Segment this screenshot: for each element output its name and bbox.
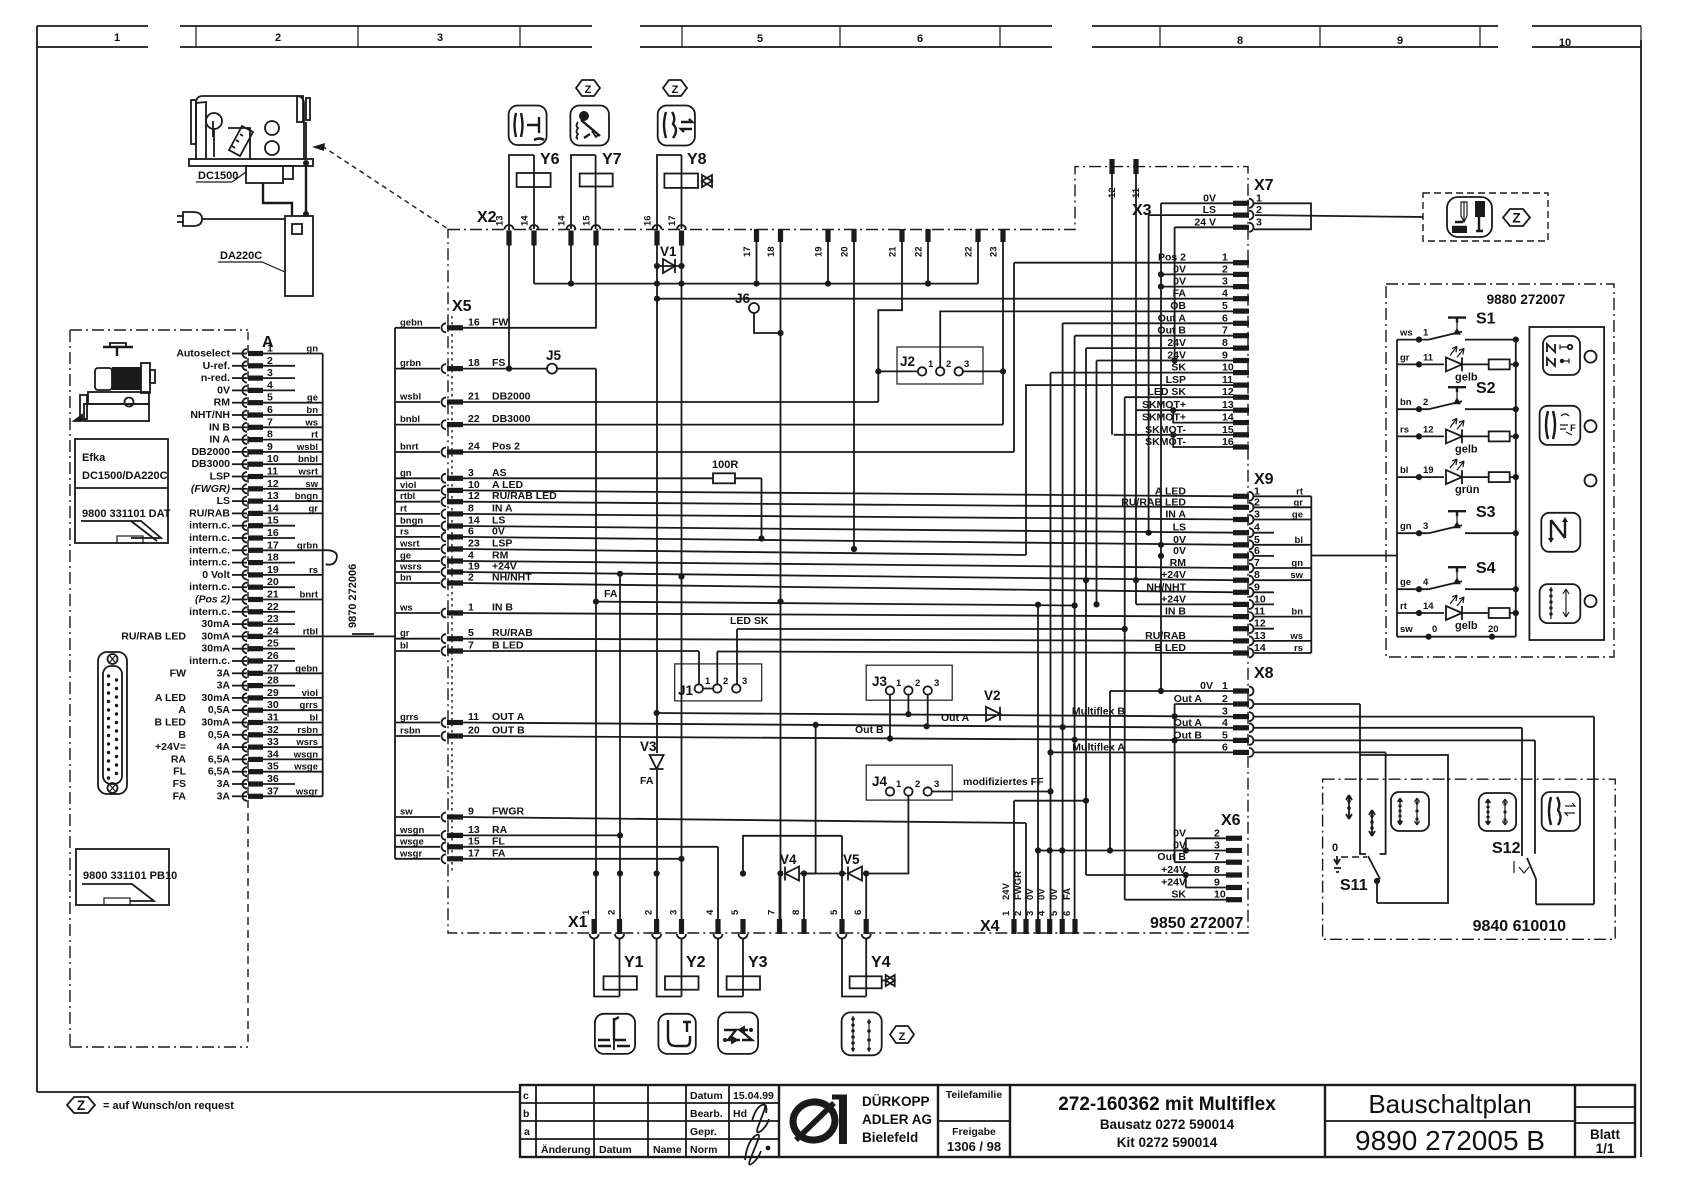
svg-text:11: 11 bbox=[468, 711, 479, 723]
svg-text:22: 22 bbox=[914, 246, 925, 257]
wire X8 pin3 Multiflex B bbox=[1254, 717, 1594, 905]
svg-text:2: 2 bbox=[644, 910, 655, 915]
svg-text:36: 36 bbox=[267, 773, 279, 785]
icon Y8 thread trim bbox=[658, 106, 695, 146]
svg-text:FS: FS bbox=[492, 357, 505, 369]
svg-text:gelb: gelb bbox=[1455, 371, 1478, 383]
wire X6 pin7 Out B bbox=[1175, 861, 1226, 863]
wire X3 pin8 24V bbox=[1086, 348, 1233, 875]
svg-text:1/1: 1/1 bbox=[1596, 1141, 1615, 1156]
svg-text:gn: gn bbox=[306, 344, 318, 355]
wire RA row bbox=[463, 834, 620, 836]
wire FW row bbox=[463, 327, 596, 329]
svg-text:a: a bbox=[524, 1126, 530, 1138]
svg-text:gr: gr bbox=[1400, 352, 1410, 363]
svg-text:grbn: grbn bbox=[400, 358, 421, 369]
svg-text:FWGR: FWGR bbox=[492, 806, 524, 818]
svg-text:intern.c.: intern.c. bbox=[189, 606, 230, 618]
svg-text:27: 27 bbox=[267, 662, 279, 674]
icon Y6 presser foot lift bbox=[509, 106, 547, 146]
svg-text:FW: FW bbox=[492, 316, 508, 328]
svg-text:RM: RM bbox=[1170, 557, 1187, 569]
wire V4 V5 bridge bbox=[743, 836, 842, 874]
svg-text:0: 0 bbox=[1432, 624, 1437, 635]
wire X3 pin13 SKMOT+ bbox=[1136, 409, 1233, 411]
svg-text:5: 5 bbox=[730, 909, 741, 915]
X5 pin 24 Pos 2 bbox=[395, 451, 440, 453]
connector A pin 8 IN A bbox=[243, 435, 248, 444]
connector A pin 33 4A bbox=[243, 743, 248, 752]
svg-text:0V: 0V bbox=[1025, 888, 1036, 900]
motor pictogram bbox=[74, 343, 155, 421]
svg-text:S3: S3 bbox=[1476, 504, 1496, 521]
svg-text:rs: rs bbox=[1294, 643, 1303, 654]
svg-text:4: 4 bbox=[1037, 910, 1048, 916]
svg-text:OUT A: OUT A bbox=[492, 711, 525, 723]
svg-text:Bielefeld: Bielefeld bbox=[862, 1130, 918, 1145]
svg-text:Pos 2: Pos 2 bbox=[492, 441, 520, 453]
svg-text:bl: bl bbox=[1295, 535, 1303, 546]
svg-text:30mA: 30mA bbox=[201, 717, 230, 729]
wire RM row bbox=[463, 561, 1236, 568]
svg-text:Datum: Datum bbox=[690, 1090, 723, 1102]
svg-text:wsbl: wsbl bbox=[399, 392, 421, 403]
svg-text:24: 24 bbox=[468, 441, 480, 453]
Efka box bbox=[75, 439, 168, 543]
svg-text:Teilefamilie: Teilefamilie bbox=[946, 1089, 1003, 1101]
wire LSP row bbox=[463, 385, 1026, 555]
connector A pin 18 intern.c. bbox=[243, 558, 248, 567]
svg-text:18: 18 bbox=[267, 552, 279, 564]
svg-text:gebn: gebn bbox=[400, 317, 423, 328]
svg-text:20: 20 bbox=[267, 576, 279, 588]
X5 pin 14 LS bbox=[395, 525, 440, 527]
svg-text:bngn: bngn bbox=[295, 491, 318, 502]
svg-text:gn: gn bbox=[400, 468, 412, 479]
svg-text:16: 16 bbox=[267, 527, 279, 539]
X5 pin 5 RU/RAB bbox=[395, 638, 440, 640]
wire X8 pin1 0V bbox=[1110, 691, 1233, 851]
svg-text:B LED: B LED bbox=[1155, 642, 1187, 654]
connector X5 bbox=[395, 298, 557, 872]
wire X3 pin16 SKMOT- bbox=[1173, 435, 1233, 447]
svg-text:V3: V3 bbox=[640, 739, 657, 754]
CONNA bbox=[121, 332, 395, 1047]
connector X8 pin 2 Out A bbox=[1233, 701, 1249, 706]
svg-text:gn: gn bbox=[1400, 521, 1412, 532]
svg-text:RU/RAB LED: RU/RAB LED bbox=[492, 490, 557, 502]
icon stitch glyph A bbox=[1346, 795, 1352, 819]
svg-text:rs: rs bbox=[309, 565, 318, 576]
connector X3 pin 7 Out B bbox=[1233, 333, 1249, 338]
connector X8 pin 3 Multiflex B bbox=[1233, 714, 1249, 719]
wire DB2000 row bbox=[463, 401, 878, 403]
svg-text:Z: Z bbox=[899, 1031, 906, 1043]
LEFTBOX bbox=[70, 330, 248, 1047]
connector X9 pin 4 LS bbox=[1233, 530, 1249, 535]
svg-text:ge: ge bbox=[400, 551, 411, 562]
svg-text:12: 12 bbox=[468, 490, 480, 502]
wire J3 pin2 to OUT A upper bbox=[907, 695, 909, 715]
svg-text:26: 26 bbox=[267, 650, 279, 662]
icon stitch box S12 bbox=[1479, 793, 1516, 831]
svg-text:24V: 24V bbox=[1001, 882, 1012, 900]
svg-text:5: 5 bbox=[1222, 300, 1228, 312]
junction J4 bbox=[866, 765, 952, 800]
svg-text:bn: bn bbox=[1291, 607, 1303, 618]
svg-text:1: 1 bbox=[896, 678, 902, 689]
svg-text:grün: grün bbox=[1455, 484, 1480, 496]
icon stitch box S11 bbox=[1391, 792, 1429, 831]
svg-text:34: 34 bbox=[267, 748, 279, 760]
connector A pin 10 DB3000 bbox=[243, 460, 248, 469]
wire X7 pin3 24V riser bbox=[1175, 227, 1233, 360]
connector A pin 15 intern.c. bbox=[243, 521, 248, 530]
svg-text:FL: FL bbox=[492, 835, 505, 847]
svg-text:1: 1 bbox=[896, 779, 902, 790]
svg-text:gn: gn bbox=[1291, 558, 1303, 569]
connector X1 pin 3 bbox=[679, 919, 684, 934]
svg-text:FWGR: FWGR bbox=[1013, 871, 1024, 900]
svg-text:B LED: B LED bbox=[155, 717, 187, 729]
wire X3 pin10 SK vertical to X4 pin4 bbox=[1051, 373, 1234, 933]
svg-text:2: 2 bbox=[915, 678, 920, 689]
wire AS row bbox=[463, 478, 762, 538]
wire 24V link X4 pin1 bbox=[1014, 801, 1086, 930]
board 9850 272007 outline bbox=[448, 167, 1248, 933]
svg-text:intern.c.: intern.c. bbox=[189, 544, 230, 556]
svg-text:14: 14 bbox=[520, 215, 531, 226]
svg-text:S12: S12 bbox=[1492, 840, 1521, 857]
pointer dashed line to board bbox=[312, 143, 325, 151]
svg-text:sw: sw bbox=[305, 479, 318, 490]
svg-text:11: 11 bbox=[1423, 352, 1434, 363]
svg-text:0V: 0V bbox=[217, 384, 230, 396]
svg-text:DB2000: DB2000 bbox=[492, 391, 531, 403]
connector X4 pin 2 FWGR bbox=[1023, 919, 1028, 934]
connector A pin 12 (FWGR) bbox=[243, 484, 248, 493]
wire Pos 2 row bbox=[463, 263, 1014, 452]
svg-text:Out B: Out B bbox=[855, 724, 884, 736]
svg-text:rt: rt bbox=[1400, 601, 1408, 612]
wire X2 pin13 to FS row bbox=[508, 245, 510, 369]
wire X7 pin1 0V riser bbox=[1161, 203, 1233, 691]
svg-text:gebn: gebn bbox=[295, 663, 318, 674]
svg-text:rt: rt bbox=[311, 430, 319, 441]
svg-text:b: b bbox=[523, 1108, 529, 1120]
connector X3 pin 15 SKMOT- bbox=[1233, 432, 1249, 437]
svg-text:LS: LS bbox=[1173, 522, 1186, 534]
svg-text:17: 17 bbox=[468, 847, 480, 859]
connector X3 pin 16 SKMOT- bbox=[1233, 444, 1249, 449]
svg-text:4A: 4A bbox=[217, 741, 231, 753]
connector X3 pin 8 24V bbox=[1233, 346, 1249, 351]
connector A pin 28 3A bbox=[243, 681, 248, 690]
connector X4 pin 4 0V bbox=[1047, 919, 1052, 934]
X5 pin 6 0V bbox=[395, 536, 440, 538]
svg-text:9890 272005 B: 9890 272005 B bbox=[1355, 1125, 1545, 1156]
panel left rail bbox=[1396, 340, 1398, 637]
connector X3 pin 10 SK bbox=[1233, 370, 1249, 375]
X5 pin 22 DB3000 bbox=[395, 424, 440, 426]
cable sheath X7 bbox=[1254, 203, 1311, 229]
svg-text:Kit 0272 590014: Kit 0272 590014 bbox=[1117, 1135, 1218, 1150]
wire LS row bbox=[463, 526, 1236, 533]
wire X3 pin1 Pos 2 bbox=[1014, 262, 1233, 264]
svg-text:Blatt: Blatt bbox=[1590, 1127, 1621, 1142]
svg-text:4: 4 bbox=[1222, 717, 1228, 729]
connector X6 pin 2 0V bbox=[1226, 836, 1242, 841]
connector X1 pin 5 bbox=[740, 919, 745, 934]
svg-text:S4: S4 bbox=[1476, 560, 1496, 577]
svg-text:B: B bbox=[178, 729, 186, 741]
panel 9840 610010 dash-dot box bbox=[1323, 779, 1616, 939]
svg-text:2: 2 bbox=[1423, 397, 1428, 408]
svg-text:6,5A: 6,5A bbox=[208, 766, 231, 778]
wire FWGR row bbox=[463, 817, 1026, 930]
9800 331101 PB10 box bbox=[76, 849, 169, 905]
svg-text:rtbl: rtbl bbox=[303, 626, 318, 637]
X5 dashed connector line bbox=[451, 316, 453, 872]
connector X9 pin 6 0V bbox=[1233, 553, 1249, 558]
svg-text:12: 12 bbox=[267, 478, 279, 490]
svg-text:8: 8 bbox=[468, 502, 474, 514]
connector X2 pin 15 bbox=[592, 225, 601, 230]
svg-text:intern.c.: intern.c. bbox=[189, 532, 230, 544]
svg-text:22: 22 bbox=[964, 246, 975, 257]
connector X2 pin 14 bbox=[567, 225, 576, 230]
svg-text:3: 3 bbox=[742, 676, 747, 687]
svg-text:Z: Z bbox=[1512, 211, 1520, 226]
wire OUT A row bbox=[463, 723, 1233, 728]
connector A pin 29 30mA bbox=[243, 693, 248, 702]
connector X7 pin 1 0V bbox=[1233, 201, 1249, 206]
connector X2 pin 19 bbox=[825, 229, 830, 242]
svg-text:22: 22 bbox=[267, 601, 279, 613]
wire X2 pin17 down bbox=[681, 245, 683, 933]
svg-text:IN A: IN A bbox=[209, 434, 230, 446]
svg-text:sw: sw bbox=[1290, 570, 1303, 581]
svg-text:B LED: B LED bbox=[492, 640, 524, 652]
wire X2 pin18 down bbox=[780, 238, 782, 933]
wire RU/RAB LED row bbox=[463, 502, 1236, 508]
svg-text:viol: viol bbox=[400, 480, 416, 491]
svg-text:5: 5 bbox=[267, 392, 273, 404]
svg-text:wsgr: wsgr bbox=[295, 786, 318, 797]
connector A pin 21 (Pos 2) bbox=[243, 595, 248, 604]
svg-text:RU/RAB LED: RU/RAB LED bbox=[1121, 496, 1186, 508]
svg-text:rt: rt bbox=[400, 503, 408, 514]
svg-text:15: 15 bbox=[267, 515, 279, 527]
svg-text:Bearb.: Bearb. bbox=[690, 1108, 723, 1120]
svg-text:wsge: wsge bbox=[293, 762, 318, 773]
icon stitch glyph B bbox=[1369, 810, 1375, 836]
connector X9 pin 7 RM bbox=[1233, 565, 1249, 570]
wire 0V row bbox=[463, 537, 1236, 545]
sewing machine head bbox=[189, 96, 313, 166]
svg-text:gr: gr bbox=[1294, 497, 1304, 508]
svg-text:13: 13 bbox=[495, 215, 506, 226]
svg-text:X3: X3 bbox=[1132, 202, 1152, 219]
svg-text:2: 2 bbox=[1013, 911, 1024, 916]
svg-text:24: 24 bbox=[267, 625, 279, 637]
wire X2 pin14b to 24V bus bbox=[570, 245, 572, 284]
wire X2 pin15 to FW row bbox=[595, 245, 597, 329]
svg-text:bn: bn bbox=[1400, 397, 1412, 408]
svg-text:Out A: Out A bbox=[941, 712, 970, 724]
svg-text:sw: sw bbox=[1400, 624, 1413, 635]
table bbox=[189, 159, 313, 166]
wire X7 pin2 LS to option box bbox=[1255, 215, 1423, 217]
X5 pin 2 NH/NHT bbox=[395, 582, 440, 584]
svg-text:V1: V1 bbox=[660, 244, 677, 259]
svg-text:100R: 100R bbox=[712, 459, 738, 471]
svg-text:30mA: 30mA bbox=[201, 630, 230, 642]
connector X2 pin 22 bbox=[925, 229, 930, 242]
connector A wire bus bbox=[322, 354, 324, 797]
icon needle position bbox=[1541, 513, 1580, 552]
svg-text:2: 2 bbox=[723, 676, 728, 687]
icon Y3 backtack bbox=[718, 1012, 758, 1054]
svg-text:12: 12 bbox=[1423, 424, 1434, 435]
svg-text:1306 / 98: 1306 / 98 bbox=[947, 1139, 1001, 1154]
svg-text:Z: Z bbox=[77, 1098, 85, 1113]
X5 pin 1 IN B bbox=[395, 612, 440, 614]
connector X9 pin 12 bbox=[1233, 626, 1249, 631]
svg-text:5: 5 bbox=[1222, 729, 1228, 741]
connector X3 pin 5 OB bbox=[1233, 309, 1249, 314]
X5 pin 12 RU/RAB LED bbox=[395, 501, 440, 503]
duerkopp adler logo bbox=[791, 1097, 847, 1144]
wire V4 left to X1 pin7 bbox=[779, 874, 781, 934]
connector X3 pin 13 SKMOT+ bbox=[1233, 408, 1249, 413]
wire B LED row left bbox=[463, 650, 699, 652]
svg-text:gelb: gelb bbox=[1455, 443, 1478, 455]
svg-text:FA: FA bbox=[173, 790, 187, 802]
connector X4 pin 3 0V bbox=[1035, 919, 1040, 934]
svg-text:NH/NHT: NH/NHT bbox=[1146, 581, 1186, 593]
wire V5 right to X1 pin6 bbox=[865, 874, 867, 934]
svg-text:= auf Wunsch/on request: = auf Wunsch/on request bbox=[103, 1100, 234, 1112]
svg-text:bl: bl bbox=[400, 641, 408, 652]
svg-text:rt: rt bbox=[1296, 486, 1304, 497]
connector X9 pin 9 NH/NHT bbox=[1233, 590, 1249, 595]
svg-text:gr: gr bbox=[400, 628, 410, 639]
junction J3 bbox=[866, 665, 952, 700]
connector A pin 11 LSP bbox=[243, 472, 248, 481]
svg-text:3: 3 bbox=[934, 779, 939, 790]
svg-text:Bauschaltplan: Bauschaltplan bbox=[1368, 1089, 1531, 1119]
svg-text:Multiflex B: Multiflex B bbox=[1072, 706, 1126, 718]
connector A pin 32 0,5A bbox=[243, 730, 248, 739]
svg-text:10: 10 bbox=[468, 479, 480, 491]
svg-text:19: 19 bbox=[814, 246, 825, 257]
connector X9 pin 14 B LED bbox=[1233, 650, 1249, 655]
icon stitch length panel bbox=[1540, 584, 1581, 623]
svg-text:Freigabe: Freigabe bbox=[952, 1126, 996, 1138]
svg-text:n-red.: n-red. bbox=[201, 372, 230, 384]
svg-text:8: 8 bbox=[267, 429, 273, 441]
X5 pin 21 DB2000 bbox=[395, 401, 440, 403]
svg-text:grrs: grrs bbox=[300, 700, 318, 711]
connector A pin 36 3A bbox=[243, 780, 248, 789]
connector X9 pin 8 +24V bbox=[1233, 578, 1249, 583]
svg-text:32: 32 bbox=[267, 724, 279, 736]
wire FL row bbox=[463, 847, 718, 930]
svg-text:IN B: IN B bbox=[209, 421, 230, 433]
connector X1 pin 6 bbox=[864, 919, 869, 934]
svg-text:20: 20 bbox=[840, 246, 851, 257]
svg-text:ge: ge bbox=[1400, 577, 1411, 588]
svg-text:wsgn: wsgn bbox=[293, 749, 318, 760]
svg-text:LED SK: LED SK bbox=[730, 615, 769, 627]
svg-text:23: 23 bbox=[267, 613, 279, 625]
grbn wire curl mark bbox=[323, 550, 337, 565]
svg-text:272-160362 mit Multiflex: 272-160362 mit Multiflex bbox=[1058, 1094, 1276, 1115]
icon Y1 needle penetration bbox=[595, 1014, 635, 1054]
svg-text:RA: RA bbox=[492, 824, 508, 836]
svg-text:0V: 0V bbox=[1049, 888, 1060, 900]
wire V4 right riser to OUT B bbox=[804, 725, 816, 933]
svg-text:V4: V4 bbox=[780, 852, 797, 867]
option hexagon Z for Y8 bbox=[663, 80, 687, 96]
wire X2 pin16 down / FA net bbox=[656, 245, 658, 933]
solenoid Y8 bbox=[657, 155, 682, 229]
connector A pin 14 RU/RAB bbox=[242, 509, 247, 518]
S11 enclosure loop bbox=[1360, 755, 1448, 903]
X5 pin 16 FW bbox=[395, 327, 440, 329]
X5 pin 7 B LED bbox=[395, 650, 440, 652]
svg-text:bnbl: bnbl bbox=[400, 414, 420, 425]
svg-text:Y8: Y8 bbox=[687, 151, 707, 168]
svg-text:viol: viol bbox=[302, 688, 318, 699]
connector X6 pin 9 +24V bbox=[1226, 885, 1242, 890]
svg-text:S1: S1 bbox=[1476, 311, 1496, 328]
svg-text:Datum: Datum bbox=[599, 1144, 632, 1156]
svg-text:DC1500/DA220C: DC1500/DA220C bbox=[82, 470, 168, 482]
svg-text:X5: X5 bbox=[452, 298, 472, 315]
wire X6 pin9 +24V bridge bbox=[1186, 875, 1226, 888]
svg-text:DB2000: DB2000 bbox=[191, 446, 230, 458]
wire J3 pin3 to OUT A bbox=[927, 695, 929, 727]
connector X3 pin 4 FA bbox=[1233, 296, 1249, 301]
svg-text:DA220C: DA220C bbox=[220, 250, 262, 262]
svg-text:9800 331101 DAT: 9800 331101 DAT bbox=[82, 508, 171, 520]
svg-text:FW: FW bbox=[170, 667, 186, 679]
option hexagon Z for Y7 bbox=[576, 80, 600, 96]
svg-text:Efka: Efka bbox=[82, 452, 106, 464]
wire X2 pin20 to LSP row bbox=[853, 238, 855, 549]
connector A pin 6 NHT/NH bbox=[243, 411, 248, 420]
connector X9 pin 10 +24V bbox=[1233, 602, 1249, 607]
svg-text:3A: 3A bbox=[217, 680, 231, 692]
svg-text:5: 5 bbox=[829, 909, 840, 915]
svg-text:LSP: LSP bbox=[210, 471, 230, 483]
connector X3 pin 9 24V bbox=[1233, 358, 1249, 363]
svg-text:15.04.99: 15.04.99 bbox=[733, 1090, 774, 1102]
svg-text:DC1500: DC1500 bbox=[198, 170, 238, 182]
svg-text:Z: Z bbox=[585, 84, 592, 96]
wire board terminal 12 riser bbox=[1111, 174, 1113, 435]
connector X4 pin 6 FA bbox=[1072, 919, 1077, 934]
connector X1 pin 2 bbox=[654, 919, 659, 934]
svg-text:ws: ws bbox=[1399, 328, 1413, 339]
svg-text:1: 1 bbox=[267, 343, 273, 355]
svg-text:3: 3 bbox=[964, 359, 969, 370]
svg-text:U-ref.: U-ref. bbox=[203, 360, 231, 372]
svg-text:18: 18 bbox=[468, 357, 480, 369]
svg-text:c: c bbox=[523, 1090, 529, 1102]
